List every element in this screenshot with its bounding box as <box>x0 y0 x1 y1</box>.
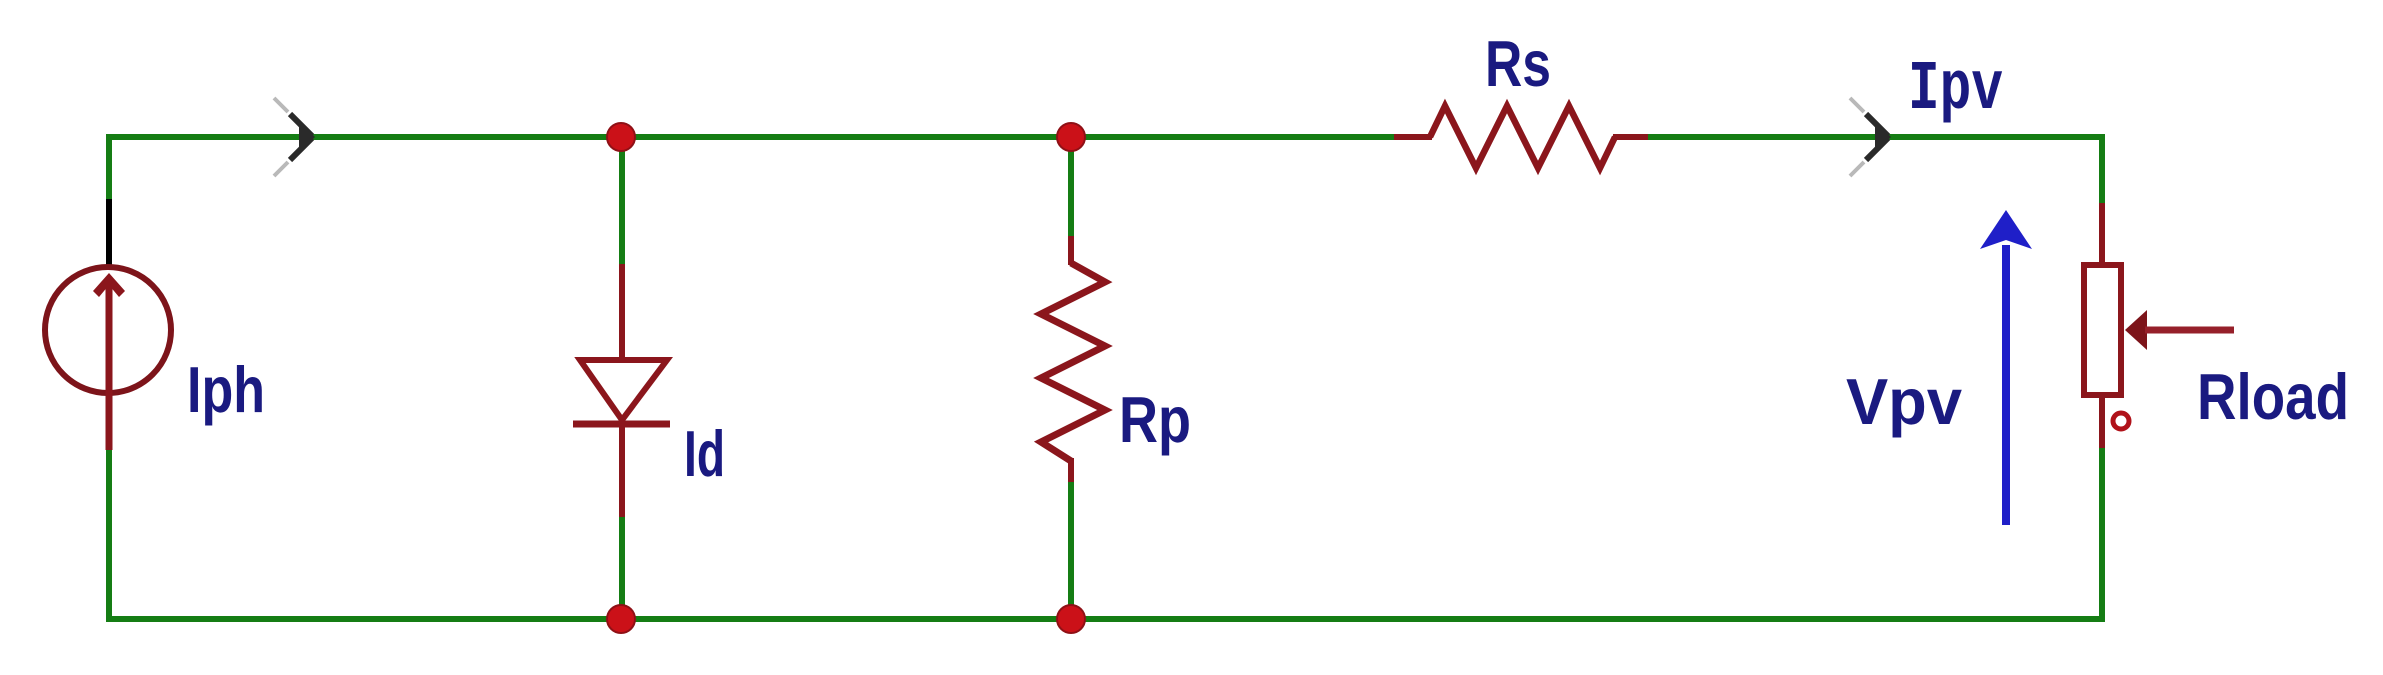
svg-text:Vpv: Vpv <box>1846 365 1962 438</box>
junction node bottom Rp <box>1057 605 1085 633</box>
current source I1 arrow shaft <box>106 280 113 450</box>
wire top: left corner to Rs left lead <box>106 134 1397 140</box>
Vpv arrowhead <box>1980 210 2032 249</box>
wire Rp branch lower <box>1068 478 1074 619</box>
Rload wiper arrowhead <box>2125 310 2147 350</box>
wire left lower <box>106 446 112 619</box>
diode D1 triangle <box>580 360 667 420</box>
wire right upper <box>2099 134 2105 206</box>
svg-text:Iph: Iph <box>187 353 265 426</box>
svg-text:Ipv: Ipv <box>1908 51 2003 130</box>
wire arrow left (current direction) <box>274 98 315 176</box>
diode D1 bottom lead <box>619 421 625 517</box>
junction node bottom diode <box>607 605 635 633</box>
Rload bottom lead dark red <box>2099 395 2105 448</box>
svg-text:Rload: Rload <box>2197 360 2349 433</box>
diode D1 cathode bar <box>573 421 670 428</box>
current source I1 arrowhead <box>93 273 125 297</box>
wire top: Rs right lead to top-right corner <box>1640 134 2105 140</box>
Vpv arrow shaft <box>2002 245 2010 525</box>
resistor Rs right lead <box>1613 134 1648 140</box>
current source I1 lead black <box>106 199 112 266</box>
Rload terminal circle <box>2113 413 2129 429</box>
resistor Rp bottom lead <box>1068 458 1074 482</box>
wire right lower <box>2099 445 2105 619</box>
junction node top Rp <box>1057 123 1085 151</box>
Rload top lead dark red <box>2099 203 2105 265</box>
junction node top diode <box>607 123 635 151</box>
Rload wiper line <box>2145 327 2234 334</box>
current source I1 bottom lead dark red <box>106 393 112 449</box>
wire diode branch upper <box>619 137 625 267</box>
diode D1 top lead <box>619 264 625 361</box>
wire diode branch lower <box>619 514 625 619</box>
Rload body rectangle <box>2084 265 2121 395</box>
svg-text:Rp: Rp <box>1119 383 1191 456</box>
svg-text:Rs: Rs <box>1485 27 1551 100</box>
current source I1 circle <box>45 267 171 393</box>
wire Rp branch upper <box>1068 137 1074 239</box>
resistor Rs left lead <box>1394 134 1432 140</box>
svg-text:Id: Id <box>684 417 725 490</box>
wire left upper <box>106 134 112 203</box>
wire bottom <box>106 616 2105 622</box>
resistor Rp zigzag <box>1041 263 1105 461</box>
resistor Rp top lead <box>1068 236 1074 265</box>
resistor Rs zigzag <box>1430 106 1615 168</box>
wire arrow right (Ipv direction) <box>1850 98 1891 176</box>
